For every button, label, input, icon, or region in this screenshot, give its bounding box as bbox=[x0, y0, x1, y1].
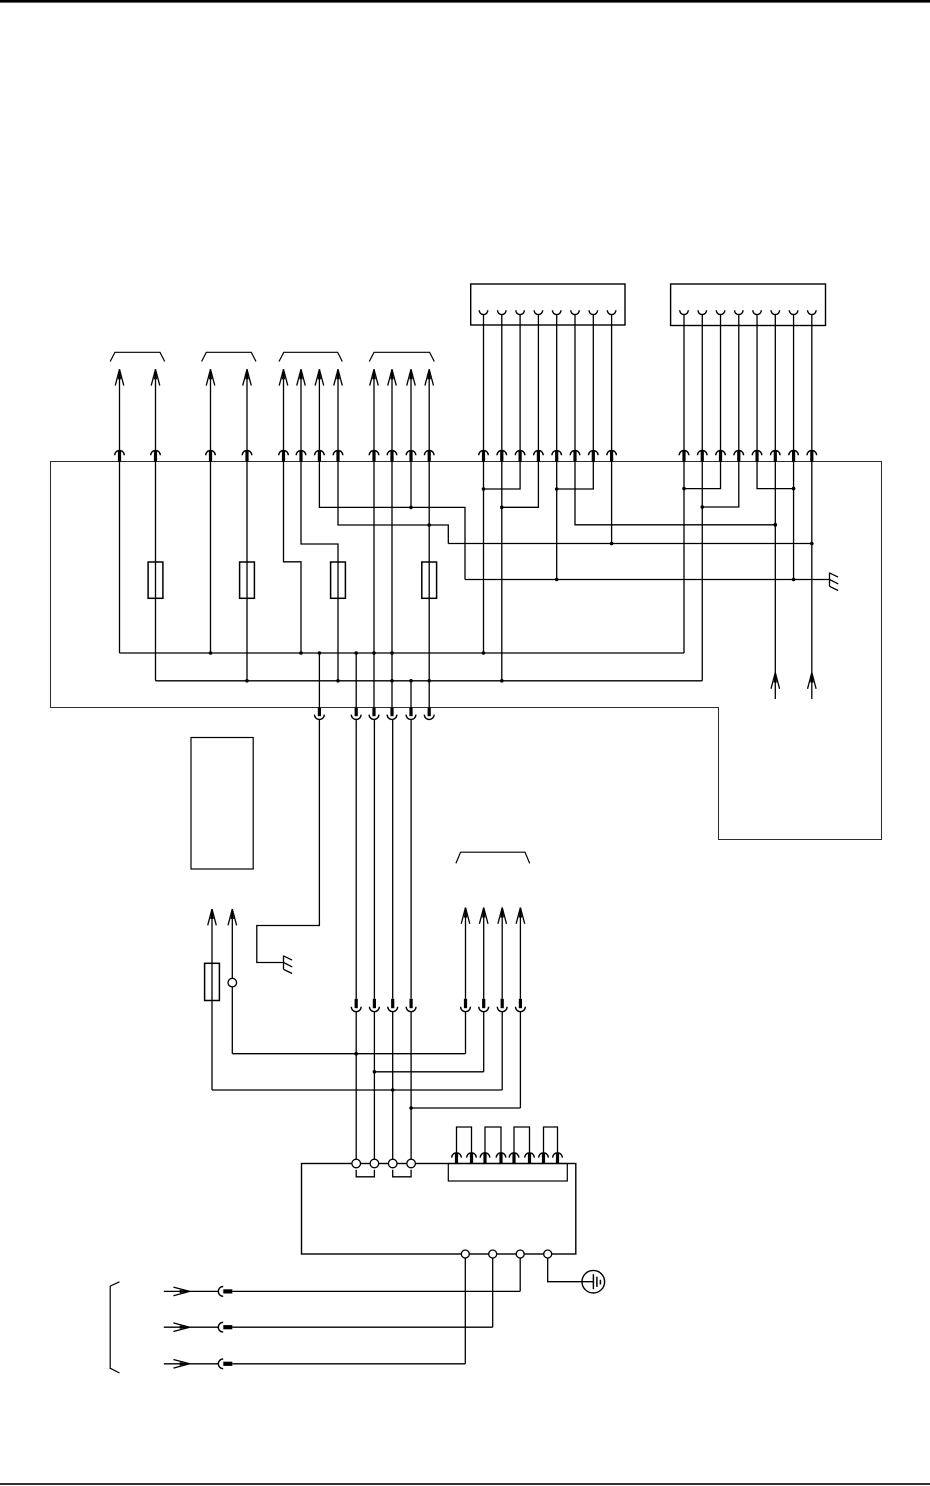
wire J1-7 bbox=[555, 461, 593, 491]
connector J1 bbox=[471, 284, 625, 325]
wire A1 (harness A pin 1) bbox=[115, 369, 125, 653]
brace harness A bbox=[110, 352, 165, 361]
connector J1 pins bbox=[479, 310, 616, 325]
floating module box bbox=[191, 738, 253, 870]
ground bus bbox=[465, 579, 830, 581]
wire C4 (harness C pin 4) bbox=[333, 369, 448, 543]
earth wire bbox=[548, 1258, 594, 1282]
jumper bracket 1 bbox=[356, 1170, 374, 1177]
wire D2 (harness D pin 2) bbox=[387, 369, 397, 708]
link module 4 bbox=[539, 1127, 563, 1164]
wire J2-6 with signal arrow bbox=[771, 461, 780, 699]
wire to chassis ground (middle) bbox=[257, 719, 320, 962]
brace harness E bbox=[456, 852, 530, 863]
wire J1-1 bbox=[482, 461, 486, 653]
mains riser E bbox=[464, 1258, 466, 1364]
fuse F2 bbox=[240, 562, 255, 598]
wire J1-3 bbox=[484, 461, 521, 489]
brace mains input bbox=[110, 1282, 119, 1373]
brace harness C bbox=[279, 352, 342, 361]
wire PL4 (board to terminal 4) bbox=[406, 719, 416, 1159]
fuse F5 bbox=[205, 963, 220, 1000]
wire J1-5 bbox=[555, 461, 559, 581]
protective earth symbol bbox=[582, 1270, 605, 1293]
wire J2-4 bbox=[702, 461, 739, 507]
bus1 tap to PL2 bbox=[355, 653, 357, 708]
bus1 tap to PL1 bbox=[318, 653, 320, 708]
terminal box outline bbox=[302, 1164, 576, 1255]
connector J1 wires to board bbox=[479, 325, 617, 462]
wire A2 (harness A pin 2) bbox=[151, 369, 161, 681]
wire fuse branch bbox=[208, 909, 217, 1090]
link wire lamp to E1 bbox=[232, 1053, 465, 1055]
bus net 3 bbox=[448, 542, 812, 546]
wire J1-8 bbox=[610, 461, 614, 545]
fuse F4 bbox=[422, 562, 437, 598]
indicator lamp bbox=[228, 978, 237, 987]
main PCB outline bbox=[51, 462, 882, 840]
wire J2-3 bbox=[684, 461, 721, 488]
link module 2 bbox=[480, 1127, 506, 1164]
link wire PL4 to E4 bbox=[411, 1107, 520, 1109]
mains riser N bbox=[492, 1258, 494, 1327]
wire D1 (harness D pin 1) bbox=[369, 369, 379, 708]
brace harness B bbox=[202, 352, 256, 361]
wire J1-4 bbox=[502, 461, 539, 507]
wire harness E pin 2 bbox=[479, 908, 489, 1072]
wire PL2 (board to terminal 2) bbox=[370, 719, 380, 1159]
connector J2 wires to board bbox=[679, 326, 816, 462]
wire J1-2 bbox=[500, 461, 504, 681]
bus net 2 bbox=[156, 679, 703, 683]
connector J2 pins bbox=[680, 310, 816, 325]
mains input line 1 bbox=[164, 1287, 520, 1297]
mains input line 2 bbox=[164, 1322, 493, 1332]
wire C2 (harness C pin 2) bbox=[296, 369, 338, 681]
board bottom edge connector pins bbox=[315, 708, 435, 720]
wire D4 (harness D pin 4) bbox=[424, 369, 434, 708]
wire J2-1 bbox=[682, 461, 686, 653]
junction dot jog C4 / D4 bbox=[427, 523, 431, 527]
wire C1 (harness C pin 1) bbox=[279, 369, 301, 653]
page header rule bbox=[0, 0, 930, 3]
header sub-box bbox=[448, 1164, 567, 1182]
connector J2 bbox=[671, 284, 826, 326]
wire C3 (harness C pin 3) bbox=[315, 369, 465, 579]
wire B1 (harness B pin 1) bbox=[206, 369, 216, 653]
wire J2-5 bbox=[757, 461, 795, 490]
wire J2-8 with signal arrow bbox=[808, 461, 817, 699]
terminal circles (bottom row) bbox=[461, 1250, 551, 1258]
mains input line 3 bbox=[164, 1359, 466, 1369]
terminal circles (top row) bbox=[352, 1159, 416, 1168]
wire PL1 (board to terminal 1) bbox=[351, 719, 361, 1159]
bus net 1 bbox=[120, 651, 685, 655]
wire J2-7 bbox=[792, 461, 796, 581]
brace harness D bbox=[369, 352, 434, 361]
link wire PL2 to E2 bbox=[374, 1071, 483, 1073]
wire lamp branch bbox=[228, 909, 237, 1054]
link module 3 bbox=[509, 1127, 534, 1164]
wire J1-6 bbox=[575, 461, 777, 526]
link wire fuse to E3 bbox=[212, 1089, 502, 1091]
fuse F3 bbox=[331, 562, 346, 598]
wire J2-2 bbox=[700, 461, 704, 681]
wire D3 (harness D pin 3) bbox=[406, 369, 416, 708]
link module 1 bbox=[452, 1127, 477, 1164]
chassis ground (middle) bbox=[284, 956, 293, 974]
wire B2 (harness B pin 2) bbox=[242, 369, 252, 681]
mains riser L bbox=[519, 1258, 521, 1291]
jumper bracket 2 bbox=[393, 1170, 411, 1177]
chassis ground (board) bbox=[830, 573, 839, 591]
wire harness E pin 4 bbox=[516, 908, 526, 1109]
wire harness E pin 3 bbox=[497, 908, 507, 1091]
fuse F1 bbox=[148, 562, 163, 598]
junction dot bus C3 / D3 bbox=[409, 506, 413, 510]
page footer rule bbox=[0, 1483, 930, 1485]
wire harness E pin 1 bbox=[461, 908, 471, 1054]
wire PL3 (board to terminal 3) bbox=[388, 719, 398, 1159]
